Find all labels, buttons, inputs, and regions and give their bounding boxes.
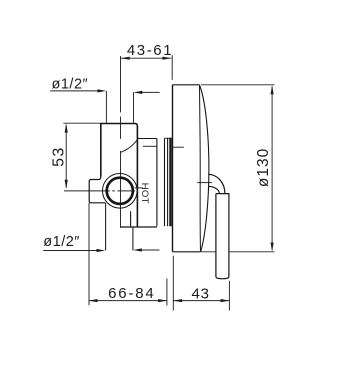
svg-text:ø1/2″: ø1/2″ (52, 77, 89, 93)
svg-text:ø130: ø130 (255, 148, 272, 187)
svg-text:43-61: 43-61 (127, 42, 173, 59)
svg-text:53: 53 (50, 146, 67, 167)
svg-text:66-84: 66-84 (108, 285, 155, 302)
svg-text:43: 43 (191, 285, 209, 302)
svg-text:ø1/2″: ø1/2″ (43, 234, 80, 250)
svg-text:HOT: HOT (139, 183, 150, 204)
